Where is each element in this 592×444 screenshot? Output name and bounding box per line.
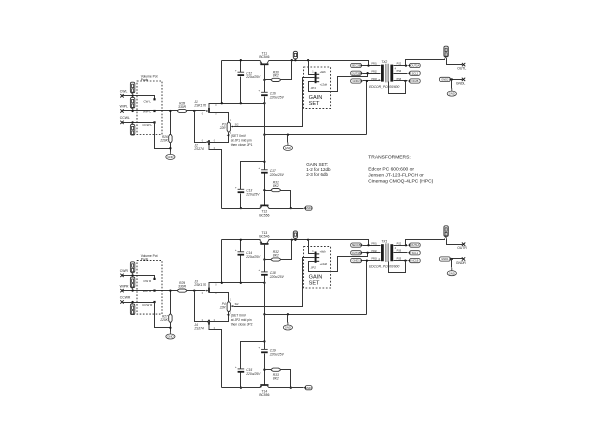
junction WIPL pad pin xyxy=(131,110,133,112)
wire PS2 to output connector xyxy=(406,239,445,246)
junction PS2 output xyxy=(405,64,407,66)
port WIPL xyxy=(120,105,128,113)
svg-text:PRI2: PRI2 xyxy=(371,70,377,73)
svg-text:+6db: +6db xyxy=(320,250,327,254)
junction center rail / C18 xyxy=(263,282,265,284)
wire P4 wiper to JP2 pin 2 xyxy=(234,258,315,307)
note set 0mV JP2 xyxy=(231,314,253,327)
wire collector rail to TX pin PRI1 xyxy=(269,61,369,66)
net tag OUT1B xyxy=(351,251,363,255)
wire center rail upper xyxy=(264,283,266,315)
net tag GND1 xyxy=(304,386,313,390)
wire connector to OUTL xyxy=(447,59,463,65)
wire PRI1 xyxy=(363,65,381,67)
net tag OUT2A xyxy=(408,63,420,67)
note transformers heading xyxy=(368,154,410,160)
wire PS2 xyxy=(394,65,408,67)
wire PRI3 xyxy=(363,260,381,262)
capacitor C15 xyxy=(235,365,261,376)
note leader arrow JP2 xyxy=(227,314,230,316)
net tag NC2B xyxy=(408,79,420,83)
wire J4 drain to bottom rail xyxy=(209,330,222,388)
wire PS6 xyxy=(394,73,408,75)
svg-text:Cinemag CMOQ-4LPC (HPC): Cinemag CMOQ-4LPC (HPC) xyxy=(368,178,433,184)
svg-text:WIP L: WIP L xyxy=(143,109,151,113)
ground GND center L xyxy=(283,143,292,151)
wire JP1 pin 3 to TX PRI2 xyxy=(309,74,368,92)
wire center rail lower xyxy=(264,174,266,206)
svg-text:220u/25V: 220u/25V xyxy=(245,255,261,259)
svg-text:then close JP2: then close JP2 xyxy=(231,322,253,326)
junction center rail R31 xyxy=(263,189,265,191)
svg-text:CCW L: CCW L xyxy=(142,123,152,127)
note leader arrow JP1 xyxy=(227,134,230,136)
transistor J1 n-jfet xyxy=(193,100,217,116)
svg-text:GAIN: GAIN xyxy=(309,95,323,101)
wire CCWL to pot pad xyxy=(123,122,155,124)
svg-text:SEC1B: SEC1B xyxy=(352,243,361,247)
capacitor C12 xyxy=(235,68,261,79)
junction CCWR pad pin xyxy=(131,301,133,303)
capacitor C16 xyxy=(258,89,284,100)
wire center rail to R33 xyxy=(265,369,272,371)
junction CWL pad pin xyxy=(131,95,133,97)
svg-text:TX1: TX1 xyxy=(381,239,387,243)
resistor R29 xyxy=(178,281,187,292)
note set 0mV JP1 xyxy=(231,134,253,147)
svg-text:GND: GND xyxy=(449,271,455,275)
net tag GND1 output xyxy=(439,257,452,261)
wire PS2 to output connector xyxy=(406,59,445,66)
capacitor C19 xyxy=(258,346,284,357)
svg-text:220u/25V: 220u/25V xyxy=(245,75,261,79)
port CCWL xyxy=(120,116,130,124)
junction base node R32 xyxy=(263,258,265,260)
svg-text:8K2: 8K2 xyxy=(273,253,279,257)
svg-text:GND2: GND2 xyxy=(441,78,449,82)
wire top rail left xyxy=(222,239,261,241)
wire gate node to J2 gate xyxy=(195,111,207,143)
port OUTL xyxy=(457,63,466,71)
wire R27 to GND xyxy=(170,323,172,332)
junction center rail / ground bus xyxy=(263,134,265,136)
junction CWR pad pin xyxy=(131,274,133,276)
svg-text:220u/25V: 220u/25V xyxy=(269,352,285,356)
resistor R32 xyxy=(271,250,280,261)
pot pad terminal WIP L xyxy=(153,110,155,112)
wire C18 to drain bus xyxy=(264,276,266,283)
svg-text:WIP R: WIP R xyxy=(143,289,152,293)
pot pad terminal CW L xyxy=(153,98,155,100)
wire C15 to bottom rail xyxy=(240,373,242,388)
wire drain riser to top rail xyxy=(221,240,223,283)
port CCWR xyxy=(120,296,131,304)
net tag SEC2B xyxy=(351,63,363,67)
note transformer options xyxy=(368,167,433,185)
wire GND2 to GNDL xyxy=(453,79,463,81)
svg-text:CCWR: CCWR xyxy=(120,296,131,300)
wire center rail upper xyxy=(264,104,266,135)
junction bottom rail C13 xyxy=(240,207,242,209)
junction bottom rail C15 xyxy=(240,387,242,389)
svg-text:BC556: BC556 xyxy=(259,213,269,217)
capacitor C17 xyxy=(258,166,284,177)
wire PS5 xyxy=(394,260,408,262)
pot pad terminal WIP R xyxy=(153,290,155,292)
jumper JP1 xyxy=(311,70,328,90)
svg-text:TX2: TX2 xyxy=(381,60,387,64)
svg-text:GND1: GND1 xyxy=(352,259,360,263)
svg-text:NC2B: NC2B xyxy=(411,79,418,83)
wire base node to C16 xyxy=(264,80,266,93)
svg-text:GAIN: GAIN xyxy=(309,274,323,280)
ground GND input R xyxy=(166,331,175,339)
junction test connector pin xyxy=(294,59,296,61)
svg-text:CWR: CWR xyxy=(120,269,129,273)
junction C14 bottom xyxy=(240,282,242,284)
svg-text:GND1: GND1 xyxy=(305,386,313,390)
svg-text:GND1: GND1 xyxy=(441,257,449,261)
wire ground bus to TX PRI3 xyxy=(265,314,367,316)
wire CCWR to pot pad xyxy=(123,302,155,304)
wire WIPR to R29 xyxy=(123,290,178,292)
pot pad terminal CCW R xyxy=(153,301,155,303)
volume pot pads box xyxy=(137,261,162,315)
wire secondary return loop xyxy=(389,81,406,94)
wire collector to JP2 pin 1 xyxy=(309,240,315,254)
transistor T14 pnp xyxy=(259,385,269,397)
connector pad WIPL xyxy=(130,97,134,109)
svg-text:JP1: JP1 xyxy=(311,86,317,90)
svg-text:+: + xyxy=(235,68,237,72)
connector output R xyxy=(444,226,448,238)
wire J1 drain bus xyxy=(209,103,265,105)
pot pad terminal CCW L xyxy=(153,121,155,123)
wire T11 base to center rail xyxy=(264,65,266,80)
junction center rail / C16 xyxy=(263,102,265,104)
junction JP2 pin1 branch xyxy=(307,239,309,241)
svg-text:2SK170: 2SK170 xyxy=(193,283,206,287)
svg-text:8K2: 8K2 xyxy=(273,184,279,188)
svg-text:(SET 0mV: (SET 0mV xyxy=(231,134,247,138)
svg-text:at JP2 mid pin: at JP2 mid pin xyxy=(231,318,252,322)
svg-text:+: + xyxy=(258,346,260,350)
wire R32 to collector rail xyxy=(281,240,292,260)
port OUTR xyxy=(457,243,467,251)
wire C16 to drain bus xyxy=(264,97,266,104)
wire bottom rail right xyxy=(269,208,304,210)
wire ground bus to TX PRI3 xyxy=(265,134,367,136)
net tag GND2 output xyxy=(439,77,452,81)
capacitor C13 xyxy=(235,186,260,197)
wire P3 to J2 source xyxy=(209,133,229,143)
resistor R33 xyxy=(271,368,280,380)
net tag SCL2 xyxy=(408,71,420,75)
svg-text:330R: 330R xyxy=(178,284,187,288)
svg-text:at JP1 mid pin: at JP1 mid pin xyxy=(231,138,252,142)
wire stub to GND xyxy=(287,315,289,323)
transistor T13 npn xyxy=(259,231,269,244)
connector pad CWL xyxy=(130,82,134,94)
junction WIPR pad pin xyxy=(131,289,133,291)
svg-text:BC546: BC546 xyxy=(259,235,269,239)
wire JP2 pin 3 to TX PRI2 xyxy=(309,253,368,272)
wire center rail middle xyxy=(264,135,266,170)
svg-text:+6db: +6db xyxy=(320,70,327,74)
wire C14 to drain bus xyxy=(240,256,242,283)
wire J2 drain to bottom rail xyxy=(209,150,222,209)
junction R top riser xyxy=(291,239,293,241)
svg-text:PRI1: PRI1 xyxy=(371,242,377,245)
port WIPR xyxy=(120,284,129,292)
svg-text:SET: SET xyxy=(309,101,320,107)
svg-text:(SET 0mV: (SET 0mV xyxy=(231,314,247,318)
junction test connector pin xyxy=(294,239,296,241)
net tag GND2 xyxy=(304,206,313,210)
wire top rail to C12 xyxy=(240,61,242,73)
wire PS5 xyxy=(394,80,408,82)
wire PS2 xyxy=(394,245,408,247)
wire CWL to pot pad xyxy=(123,96,155,100)
wire base node to R32 xyxy=(265,259,272,261)
svg-text:22R: 22R xyxy=(219,305,227,309)
wire center rail lower xyxy=(264,354,266,385)
wire top rail to C14 xyxy=(240,240,242,252)
svg-text:S/2: S/2 xyxy=(235,302,239,306)
junction WIPL / R26 xyxy=(169,110,171,112)
transistor J4 p-jfet xyxy=(193,319,215,331)
wire J1 source to P3 xyxy=(209,113,229,123)
wire R29 to gate node xyxy=(187,290,206,292)
label Volume Pot Pads xyxy=(141,74,158,82)
capacitor C18 xyxy=(258,268,284,279)
wire base node to R30 xyxy=(265,79,272,81)
wire J3 drain bus xyxy=(209,282,265,284)
connector pad CWR xyxy=(130,262,134,274)
net tag OUT2B xyxy=(351,71,363,75)
svg-text:+: + xyxy=(258,89,260,93)
svg-text:2-3 for 6db: 2-3 for 6db xyxy=(306,172,328,177)
svg-text:SCL1: SCL1 xyxy=(412,251,419,255)
svg-text:GND2: GND2 xyxy=(352,79,360,83)
transistor T12 pnp xyxy=(259,205,269,217)
wire PRI2 xyxy=(363,73,381,75)
transformer TX2 xyxy=(369,60,402,89)
junction ground bus GND stub xyxy=(287,313,289,315)
junction PS5 loop xyxy=(404,259,406,261)
gain set box xyxy=(304,67,331,108)
connector pad CCWL xyxy=(130,123,134,135)
svg-text:+: + xyxy=(235,186,237,190)
svg-text:GND: GND xyxy=(167,155,173,159)
ground GND input L xyxy=(166,152,175,160)
svg-text:CW R: CW R xyxy=(143,279,152,283)
svg-text:Pads: Pads xyxy=(141,78,149,82)
svg-text:220u/25V: 220u/25V xyxy=(269,173,285,177)
svg-text:8K2: 8K2 xyxy=(273,377,279,381)
junction output gnd xyxy=(451,78,453,80)
note gain set options xyxy=(306,162,331,177)
junction gate node xyxy=(193,289,195,291)
wire bottom rail left xyxy=(222,387,261,389)
transistor J2 p-jfet xyxy=(193,139,215,151)
svg-text:Pads: Pads xyxy=(141,258,149,262)
junction ground node xyxy=(169,327,171,329)
port CWR xyxy=(120,269,129,277)
svg-text:OUT1A: OUT1A xyxy=(411,243,420,247)
junction WIPR / R27 xyxy=(169,289,171,291)
wire bottom rail left xyxy=(222,208,261,210)
wire branch to C13 xyxy=(241,162,265,190)
svg-text:WIPL: WIPL xyxy=(120,105,128,109)
connector test point R xyxy=(293,231,297,240)
wire top rail left xyxy=(222,60,261,62)
junction output gnd xyxy=(451,258,453,260)
junction PRI1 feed xyxy=(367,244,369,246)
resistor R26 xyxy=(159,135,172,143)
port CWL xyxy=(120,90,128,98)
wire WIPL to R26 xyxy=(170,111,172,135)
wire R26 to GND xyxy=(170,143,172,152)
net tag OUT1A xyxy=(408,243,420,247)
wire drain riser to top rail xyxy=(221,61,223,104)
svg-text:Edcor PC 600:600 or: Edcor PC 600:600 or xyxy=(368,167,414,173)
svg-text:2SJ74: 2SJ74 xyxy=(193,327,204,331)
svg-text:OUTR: OUTR xyxy=(457,246,467,250)
svg-text:GND2: GND2 xyxy=(305,206,313,210)
svg-text:SEC2B: SEC2B xyxy=(352,64,361,68)
svg-text:GND: GND xyxy=(449,92,455,96)
resistor R28 xyxy=(178,101,187,112)
junction center rail R33 xyxy=(263,369,265,371)
junction drain riser xyxy=(221,102,223,104)
gain set box xyxy=(304,247,331,288)
svg-text:CW L: CW L xyxy=(143,100,151,104)
svg-text:TRANSFORMERS:: TRANSFORMERS: xyxy=(368,154,410,160)
wire P3 wiper to JP1 pin 2 xyxy=(234,78,315,127)
svg-text:330R: 330R xyxy=(178,105,187,109)
svg-text:OUT1B: OUT1B xyxy=(352,251,361,255)
wire TX PRI3 riser xyxy=(366,81,368,135)
svg-text:GNDL: GNDL xyxy=(456,81,466,85)
svg-text:220u/25V: 220u/25V xyxy=(269,95,285,99)
svg-text:Jensen JT-123-FLPCH or: Jensen JT-123-FLPCH or xyxy=(368,172,424,178)
wire C12 to drain bus xyxy=(240,77,242,104)
wire bottom rail right xyxy=(269,387,304,389)
junction top rail C14 xyxy=(240,239,242,241)
trimmer P4 xyxy=(219,300,239,315)
svg-text:GND: GND xyxy=(167,335,173,339)
svg-text:OUT2B: OUT2B xyxy=(352,71,361,75)
jumper JP2 xyxy=(311,250,328,270)
wire secondary return loop xyxy=(389,261,406,273)
junction PRI1 feed xyxy=(367,64,369,66)
junction PS2 output xyxy=(405,244,407,246)
trimmer P3 xyxy=(219,120,239,135)
wire CWR to pot pad xyxy=(123,276,155,279)
wire TX PRI3 riser xyxy=(366,261,368,315)
wire J3 source to P4 xyxy=(209,293,229,302)
junction gate node xyxy=(193,110,195,112)
junction PRI3 riser xyxy=(366,259,368,261)
wire center rail to R31 xyxy=(265,190,272,192)
junction bottom rail R31 xyxy=(290,207,292,209)
junction CCWL pad pin xyxy=(131,121,133,123)
svg-text:OUT2A: OUT2A xyxy=(411,64,420,68)
svg-text:220K: 220K xyxy=(159,138,168,142)
svg-text:CCWL: CCWL xyxy=(120,116,130,120)
wire to output GND symbol xyxy=(451,259,453,268)
svg-text:BC556: BC556 xyxy=(259,393,269,397)
junction C12 bottom xyxy=(240,102,242,104)
junction bottom rail R33 xyxy=(290,387,292,389)
svg-text:GNDR: GNDR xyxy=(456,261,467,265)
net tag GND2 xyxy=(351,79,363,83)
wire WIPR to R27 xyxy=(170,291,172,315)
resistor R27 xyxy=(159,314,172,322)
resistor R31 xyxy=(271,181,280,192)
svg-text:then close JP1: then close JP1 xyxy=(231,143,253,147)
connector output L xyxy=(444,46,448,58)
wire to output GND symbol xyxy=(451,80,453,89)
wire PRI1 xyxy=(363,245,381,247)
junction ground bus GND stub xyxy=(287,134,289,136)
svg-text:22R: 22R xyxy=(219,126,227,130)
capacitor C14 xyxy=(235,248,261,259)
pot pad terminal CW R xyxy=(153,278,155,280)
svg-text:EDCOR_PC600/600: EDCOR_PC600/600 xyxy=(369,85,399,89)
junction center rail / ground bus xyxy=(263,313,265,315)
wire PRI3 xyxy=(363,80,381,82)
svg-text:PS2: PS2 xyxy=(397,242,402,245)
junction base node R30 xyxy=(263,79,265,81)
wire WIPL to R28 xyxy=(123,110,178,112)
wire connector to OUTR xyxy=(447,239,463,245)
junction PS5 loop xyxy=(404,80,406,82)
svg-text:8K2: 8K2 xyxy=(273,74,279,78)
port GNDR xyxy=(456,257,467,265)
wire C13 to bottom rail xyxy=(240,194,242,209)
connector pad WIPR xyxy=(130,277,134,289)
svg-text:+: + xyxy=(258,268,260,272)
svg-text:OUTL: OUTL xyxy=(457,67,466,71)
wire stub to GND xyxy=(287,135,289,143)
svg-text:PS6: PS6 xyxy=(397,70,402,73)
junction PRI2 jumper xyxy=(366,72,368,74)
ground GND center R xyxy=(283,322,292,330)
wire CCW R to ground node xyxy=(155,303,171,328)
junction drain riser xyxy=(221,282,223,284)
svg-text:220u/25V: 220u/25V xyxy=(269,275,285,279)
junction center rail C13 branch xyxy=(263,161,265,163)
svg-text:+: + xyxy=(258,166,260,170)
wire PRI2 xyxy=(363,252,381,254)
wire CCW L to ground node xyxy=(155,123,171,149)
svg-text:+: + xyxy=(235,248,237,252)
svg-text:CCW R: CCW R xyxy=(142,303,153,307)
junction ground node xyxy=(169,147,171,149)
label GAIN SET xyxy=(309,274,323,286)
volume pot pads box xyxy=(137,81,162,135)
svg-text:WIPR: WIPR xyxy=(120,284,129,288)
net tag GND1 xyxy=(351,259,363,263)
svg-text:BC546: BC546 xyxy=(259,55,269,59)
junction center rail C15 branch xyxy=(263,340,265,342)
svg-text:+12db: +12db xyxy=(320,262,328,266)
junction PRI2 jumper xyxy=(366,252,368,254)
label GAIN SET xyxy=(309,95,323,107)
svg-text:2SJ74: 2SJ74 xyxy=(193,147,204,151)
